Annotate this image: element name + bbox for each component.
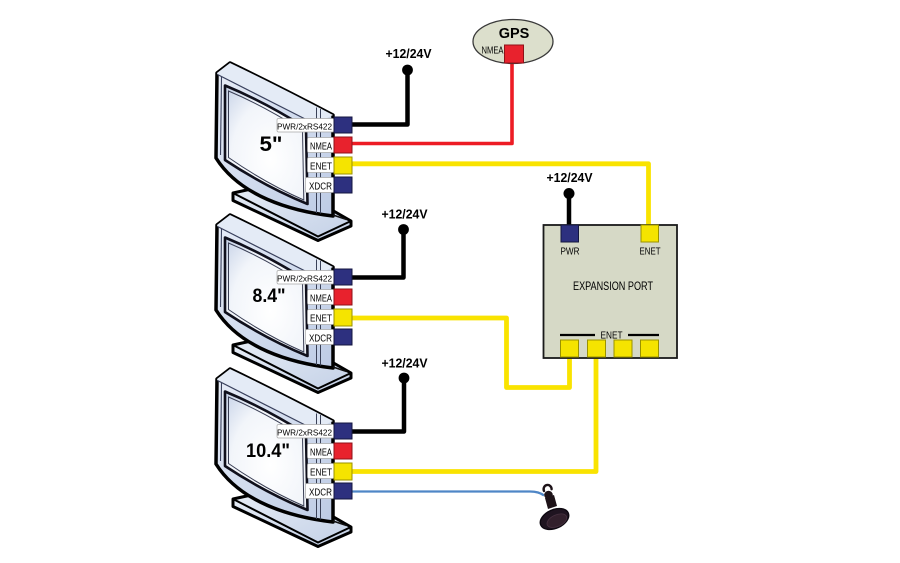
svg-text:PWR: PWR [561,247,580,258]
svg-text:10.4": 10.4" [246,440,290,462]
svg-text:5": 5" [260,133,283,156]
svg-text:+12/24V: +12/24V [386,46,432,61]
svg-text:EXPANSION PORT: EXPANSION PORT [573,281,653,293]
svg-text:ENET: ENET [640,247,661,258]
svg-text:+12/24V: +12/24V [382,356,428,371]
svg-text:+12/24V: +12/24V [547,170,593,185]
svg-text:NMEA: NMEA [482,46,504,57]
svg-text:GPS: GPS [499,26,530,42]
svg-text:8.4": 8.4" [253,285,286,307]
svg-text:+12/24V: +12/24V [382,207,428,222]
